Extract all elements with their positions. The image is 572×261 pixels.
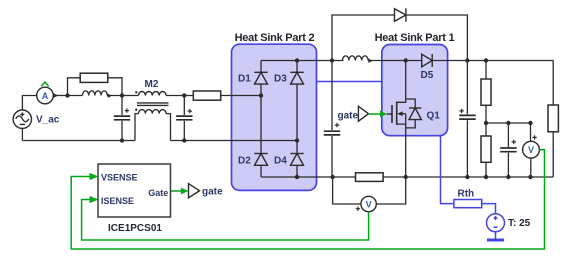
junction C2-bottom <box>182 138 186 142</box>
svg-text:V_ac: V_ac <box>36 115 60 126</box>
gate green arrow <box>369 113 382 115</box>
voltmeter V2 <box>523 135 540 158</box>
wire: C3 vertical <box>331 61 333 178</box>
resistor R4 (divider bottom) <box>481 136 491 162</box>
svg-text:V: V <box>366 200 372 210</box>
wire: HS1 to Rth <box>441 136 454 204</box>
capacitor C2 <box>176 109 192 120</box>
wire: thermal blue HS2-HS1 <box>317 81 382 83</box>
svg-text:ICE1PCS01: ICE1PCS01 <box>108 223 162 234</box>
inductor L1 arrow <box>108 94 112 98</box>
svg-text:D2: D2 <box>238 156 251 167</box>
svg-text:D3: D3 <box>274 74 287 85</box>
junction bridge bottom out (D4) <box>295 175 299 179</box>
svg-text:ISENSE: ISENSE <box>101 196 134 206</box>
capacitor C4 <box>459 109 476 119</box>
arrow into VSENSE <box>90 173 99 180</box>
junction divider top <box>484 58 488 62</box>
thermal ground <box>495 232 497 239</box>
svg-text:V: V <box>528 145 534 155</box>
wire: vac bottom <box>21 128 23 140</box>
svg-text:D5: D5 <box>421 70 434 81</box>
node A dot <box>65 93 69 97</box>
wire: mid node horizontal <box>486 122 531 124</box>
heat sink HS2 box <box>232 44 317 190</box>
wire: shunt voltmeter loop <box>333 177 406 204</box>
wire: R1 branch right-down <box>108 78 122 96</box>
ammeter probe caret <box>41 82 48 86</box>
wire: ammeter to node A <box>53 95 82 97</box>
diode D2 <box>254 154 267 166</box>
junction V2 bottom <box>528 175 532 179</box>
gate output port <box>189 184 200 198</box>
wire: Q1 body lead <box>399 113 406 115</box>
ammeter output arrow <box>54 93 59 98</box>
wire: boost node to D5 <box>369 60 554 62</box>
svg-text:gate: gate <box>338 111 359 122</box>
wire: bottom rail to bridge <box>171 140 298 142</box>
junction bypass return / C4 top <box>465 58 469 62</box>
junction C4 bottom <box>465 175 469 179</box>
green signal wires <box>71 150 544 249</box>
wire: vac top <box>22 96 36 111</box>
diode D3 <box>290 72 303 84</box>
gate port at Q1 <box>358 106 368 121</box>
junction divider mid <box>484 121 488 125</box>
wire: V2 to VSENSE <box>71 150 544 249</box>
diode D4 <box>290 154 303 166</box>
ammeter A1 <box>37 82 59 104</box>
source V_ac <box>13 110 31 128</box>
mosfet body diode <box>409 108 421 120</box>
inductor L2 (boost) <box>343 56 369 61</box>
wire: D1-D2 column <box>260 96 262 178</box>
bypass diode <box>395 8 406 21</box>
junction C5 bottom <box>506 175 510 179</box>
junction bridge top out (D3) <box>295 58 299 62</box>
resistor R1 (damping, parallel) <box>80 73 108 82</box>
thermal network blue <box>441 136 505 240</box>
wire: node B to M2 <box>107 95 139 97</box>
wire: bottom rail left <box>23 140 136 142</box>
source T <box>487 214 505 232</box>
resistor R3 (divider top) <box>481 79 491 105</box>
svg-text:Q1: Q1 <box>427 111 441 122</box>
svg-text:gate: gate <box>202 187 223 198</box>
heat sink HS1 box <box>382 45 448 136</box>
wire: M2 bottom leads <box>135 114 171 141</box>
inductor L1 <box>83 91 108 96</box>
wire: C5 vertical <box>507 123 509 177</box>
transformer M2 <box>137 92 169 114</box>
junction boost input / bypass <box>330 58 334 62</box>
controller ICE1PCS01 <box>98 164 171 217</box>
capacitor C1 <box>114 108 130 119</box>
svg-text:Heat Sink Part 2: Heat Sink Part 2 <box>235 32 315 44</box>
junction bridge return (D3-D4) <box>295 138 299 142</box>
wire: bridge top bus <box>261 61 344 96</box>
capacitor C5 <box>500 140 517 152</box>
wire: bridge bottom bus / negative rail <box>261 176 553 178</box>
wire: M2 out to D1 anode <box>166 95 261 97</box>
junction divider bottom <box>484 175 488 179</box>
wire: Q1 source column <box>397 114 406 177</box>
node B dot <box>120 93 124 97</box>
resistor R5 (load) <box>548 105 558 132</box>
svg-text:Gate: Gate <box>148 188 168 198</box>
junction Q1 drain <box>404 58 408 62</box>
wire: Q1 diode branch <box>406 99 416 128</box>
node C2-top dot <box>182 93 186 97</box>
svg-text:M2: M2 <box>145 79 159 90</box>
svg-text:A: A <box>42 91 49 101</box>
wire: D3-D4 column <box>296 61 298 178</box>
wire: Q1 drain <box>397 61 406 103</box>
capacitor C3 <box>324 123 340 135</box>
junction bridge input (D1-D2) <box>259 93 263 97</box>
wire: V1 to ISENSE <box>82 200 369 241</box>
resistor R2 (series) <box>193 91 220 100</box>
wire: C2 vertical <box>183 96 185 141</box>
wire: gate output <box>171 190 182 192</box>
wire: C1 vertical <box>121 96 123 141</box>
wire: Rth to T source <box>482 204 496 214</box>
arrow into ISENSE <box>90 196 99 203</box>
svg-text:Rth: Rth <box>458 189 475 200</box>
voltmeter V1 (shunt) <box>356 196 377 211</box>
svg-text:D4: D4 <box>274 156 287 167</box>
wire: divider column <box>485 61 487 178</box>
junction C1-bottom <box>120 138 124 142</box>
mosfet Q1 <box>387 102 397 126</box>
arrow into gate port <box>181 188 188 195</box>
junction V2 top <box>528 121 532 125</box>
wire: R1 branch up-left <box>68 78 81 96</box>
svg-text:T: 25: T: 25 <box>508 218 531 229</box>
junction Q1 source / V1 tap <box>404 175 408 179</box>
resistor R6 (shunt) <box>356 173 384 182</box>
diode D5 <box>422 54 433 67</box>
wire: C4 vertical <box>466 61 468 178</box>
wire: bypass diode loop <box>332 15 467 61</box>
wire: load resistor column <box>552 61 554 178</box>
diode D1 <box>254 72 267 84</box>
svg-text:D1: D1 <box>238 74 251 85</box>
svg-text:Heat Sink Part 1: Heat Sink Part 1 <box>375 32 455 44</box>
wire: V2 column <box>530 123 532 177</box>
junction C3 bottom / V1 tap <box>330 175 334 179</box>
junction C5 top <box>506 121 510 125</box>
inductor L2 arrow <box>368 59 372 63</box>
svg-text:VSENSE: VSENSE <box>101 172 138 182</box>
resistor Rth <box>454 200 482 208</box>
